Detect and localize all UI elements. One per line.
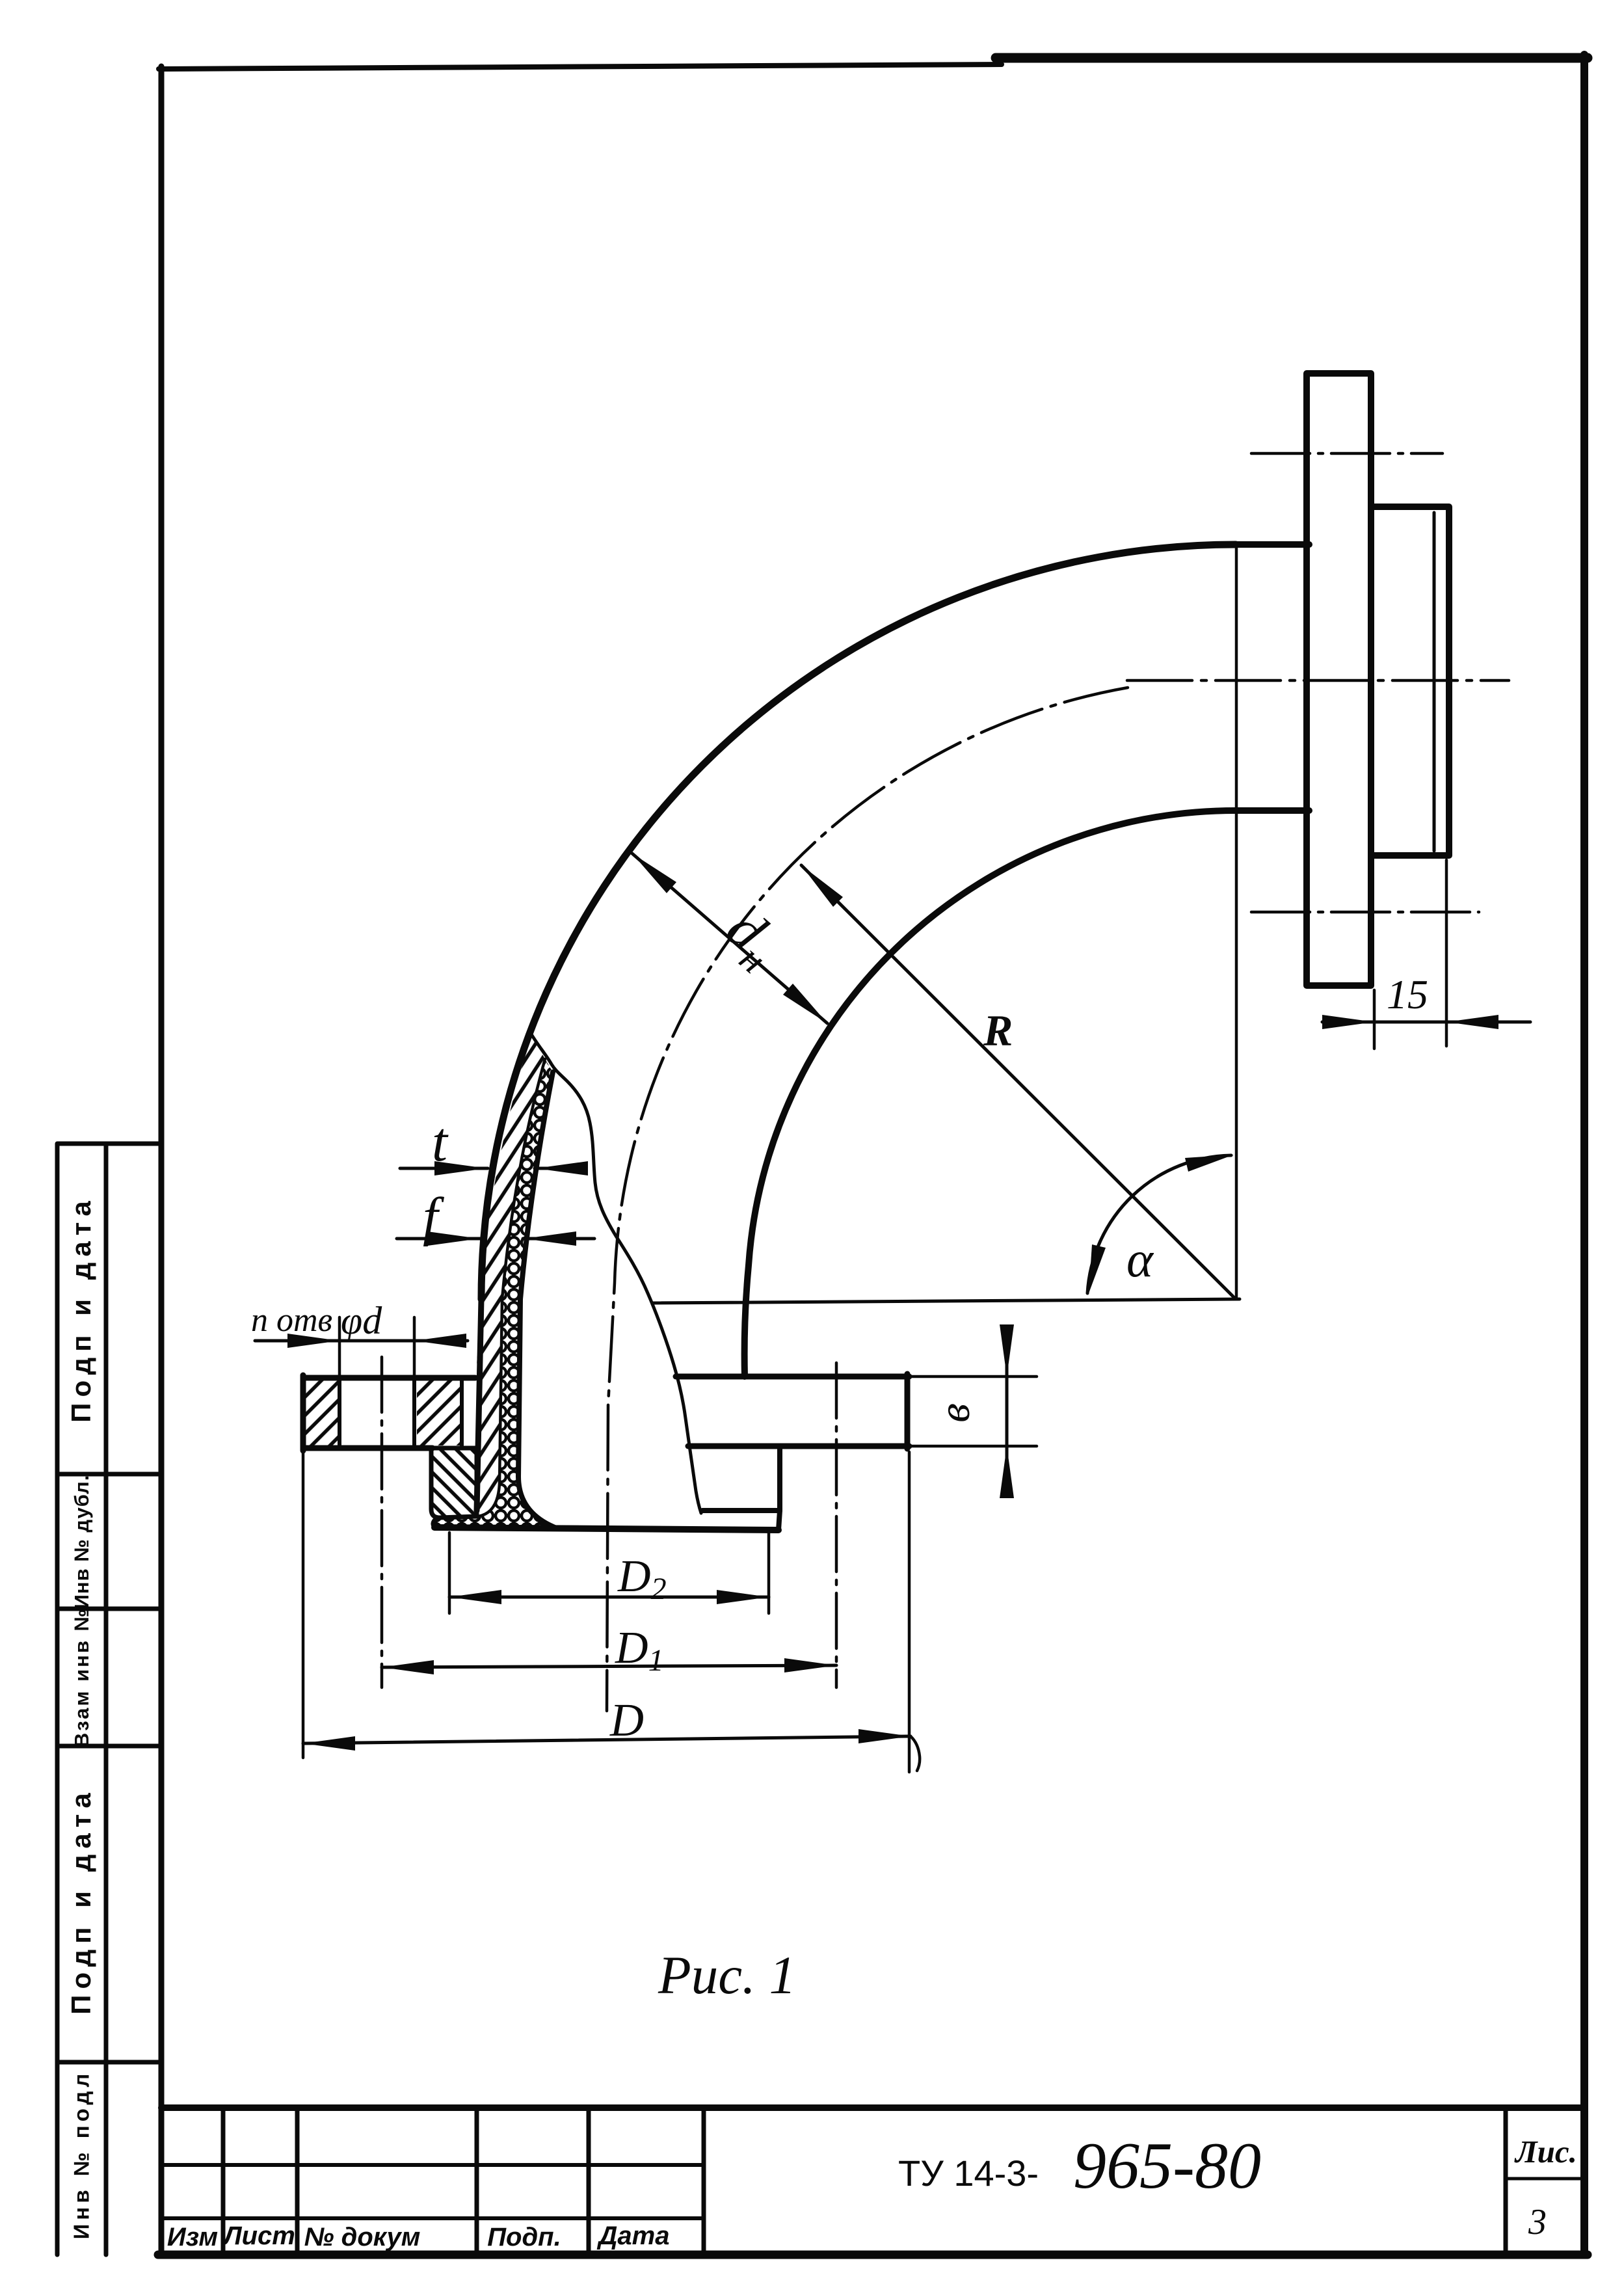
dim f arrowheads <box>427 1231 576 1246</box>
dim D arrowheads <box>303 1729 911 1751</box>
svg-text:Дата: Дата <box>597 2222 670 2250</box>
lower bolt hole axis <box>1251 911 1479 914</box>
center line arc dash-dot <box>607 688 1128 1711</box>
lower flange view bottom line <box>688 1444 909 1449</box>
bolt hole edge left <box>338 1378 341 1448</box>
svg-text:ТУ 14-3-: ТУ 14-3- <box>898 2153 1039 2194</box>
dn arrowhead inner <box>783 984 827 1023</box>
flared end bottom face <box>434 1527 779 1530</box>
dim D line <box>303 1736 911 1743</box>
pipe straight top inner line <box>1236 807 1309 814</box>
svg-text:Подп.: Подп. <box>487 2223 561 2251</box>
svg-text:в: в <box>929 1403 979 1423</box>
flange section hatch block right <box>417 1380 460 1445</box>
stamp divider 4 <box>57 2060 161 2065</box>
dim D2 extension lines <box>449 1533 769 1613</box>
svg-text:D: D <box>609 1694 644 1746</box>
svg-text:Изм: Изм <box>167 2223 218 2251</box>
frame top border right part <box>996 53 1588 63</box>
dim f line <box>397 1237 594 1241</box>
lower flange view top line <box>676 1374 909 1380</box>
alpha arrowhead top <box>1185 1155 1234 1172</box>
flange hub block hatched <box>431 1448 477 1518</box>
upper flange raised face <box>1371 507 1449 855</box>
svg-text:Подп и дата: Подп и дата <box>66 1787 96 2014</box>
pipe metal wall section hatch fill <box>477 1034 545 1516</box>
elbow inner arc with extension to flange <box>745 811 1236 1377</box>
R arrowhead <box>801 865 843 907</box>
title block row lines <box>161 2165 704 2218</box>
dim v line <box>1005 1330 1009 1490</box>
dim fi-d line <box>255 1339 468 1343</box>
dim D extension lines <box>303 1452 909 1772</box>
enamel lining pebble fill <box>434 1059 558 1529</box>
radius line R <box>801 865 1236 1299</box>
dim D1 arrowheads <box>382 1658 836 1674</box>
svg-text:965-80: 965-80 <box>1073 2129 1261 2203</box>
svg-text:Лист: Лист <box>222 2222 295 2250</box>
svg-text:R: R <box>983 1006 1013 1055</box>
dim D flourish <box>911 1736 920 1771</box>
dim 15 arrowheads <box>1322 1015 1498 1029</box>
svg-text:Рис. 1: Рис. 1 <box>658 1945 796 2005</box>
dn arrowhead outer <box>632 853 676 893</box>
stamp divider 2 <box>57 1607 161 1611</box>
stamp divider 3 <box>57 1744 161 1749</box>
svg-text:Взам инв №: Взам инв № <box>70 1607 93 1747</box>
flange section hatch block left <box>305 1380 338 1445</box>
title block list divider <box>1506 2177 1584 2181</box>
stamp divider 1 <box>57 1472 161 1477</box>
svg-text:t: t <box>432 1110 449 1173</box>
svg-text:3: 3 <box>1528 2202 1547 2242</box>
elbow joint thin vertical line <box>1235 544 1238 1299</box>
dim D1 line <box>382 1665 836 1667</box>
dim t line <box>400 1167 579 1170</box>
flare step riser <box>779 1511 780 1530</box>
lower flange section top line <box>303 1375 475 1381</box>
lower flange section bottom line <box>303 1445 433 1451</box>
wavy break line <box>531 1034 701 1513</box>
svg-text:Инв № подл: Инв № подл <box>70 2070 94 2240</box>
svg-text:№ докум: № докум <box>304 2223 421 2251</box>
bolt hole center line left <box>380 1357 384 1687</box>
alpha arrowhead bottom <box>1089 1244 1106 1293</box>
svg-text:n отв: n отв <box>251 1302 332 1339</box>
title block column lines <box>223 2108 1506 2255</box>
bolt hole center line right <box>835 1363 838 1687</box>
dim 15 line <box>1322 1021 1530 1024</box>
vertex horizontal construction line <box>652 1299 1240 1303</box>
flange bore edge <box>460 1378 464 1448</box>
lower flange right edge <box>905 1374 911 1449</box>
angle alpha arc <box>1087 1155 1231 1293</box>
svg-text:φd: φd <box>341 1299 382 1342</box>
svg-text:Лис.: Лис. <box>1514 2134 1577 2170</box>
upper flange plate <box>1307 373 1371 986</box>
dn dimension line <box>632 853 827 1023</box>
dim v extension lines <box>912 1377 1037 1446</box>
flare lip curve <box>433 1518 438 1527</box>
svg-text:α: α <box>1126 1231 1154 1287</box>
dim D2 line <box>449 1596 769 1599</box>
frame bottom border <box>158 2251 1588 2259</box>
svg-text:15: 15 <box>1387 971 1428 1017</box>
svg-text:Инв № дубл.: Инв № дубл. <box>70 1475 93 1609</box>
upper bolt hole axis <box>1251 452 1443 455</box>
stamp column box <box>57 1144 161 2255</box>
pipe bore line <box>518 1072 558 1529</box>
lining interface line <box>440 1059 545 1518</box>
dim t arrowheads <box>434 1161 588 1176</box>
lower flange left edge <box>300 1375 306 1451</box>
hub bottom right line <box>702 1508 780 1513</box>
dim fi-d arrowheads <box>287 1334 466 1348</box>
dim 15 extension lines <box>1374 860 1446 1049</box>
dim v arrowheads <box>1000 1324 1014 1498</box>
dim D2 arrowheads <box>449 1590 769 1604</box>
title block top edge <box>161 2104 1584 2111</box>
dim fi-d extension lines <box>339 1317 414 1378</box>
frame right border <box>1580 55 1588 2255</box>
bolt hole edge right <box>412 1378 416 1448</box>
elbow outer arc <box>481 544 1236 1299</box>
hub right edge <box>777 1446 782 1511</box>
frame left border <box>159 66 165 2255</box>
pipe outer wall straight segment <box>477 1299 481 1511</box>
raised face inner line <box>1433 513 1436 851</box>
svg-text:Подп и дата: Подп и дата <box>66 1195 96 1422</box>
horizontal pipe axis center line <box>1127 679 1509 682</box>
pipe straight top outer line <box>1236 541 1309 548</box>
frame top border left part <box>159 64 1002 69</box>
